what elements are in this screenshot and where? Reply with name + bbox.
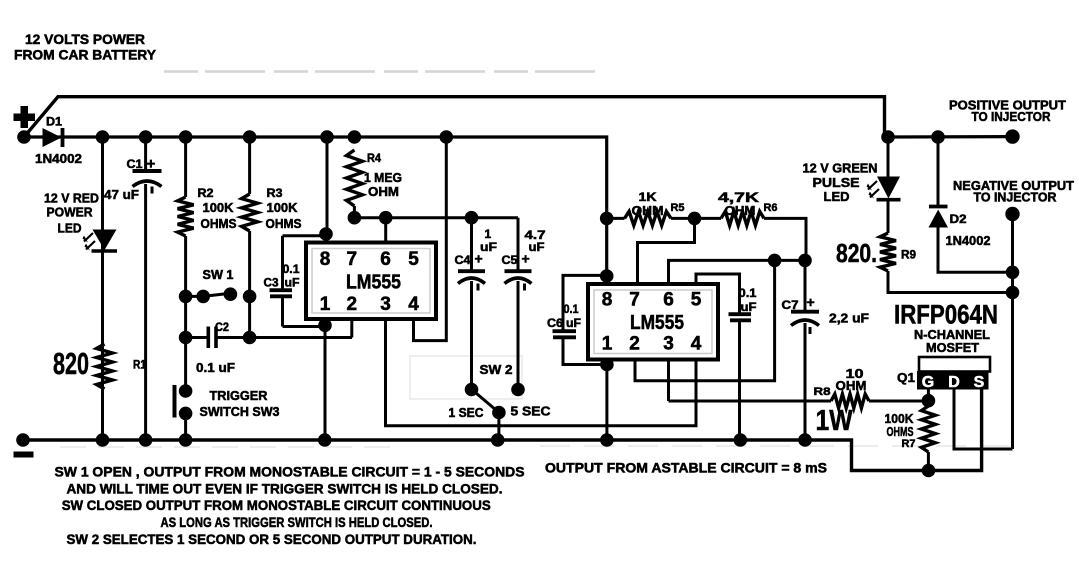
svg-text:4: 4 (691, 334, 702, 355)
svg-text:uF: uF (529, 240, 545, 254)
svg-text:C1: C1 (127, 157, 143, 171)
svg-text:LED: LED (824, 189, 850, 204)
svg-text:5: 5 (691, 289, 702, 310)
svg-text:1 SEC: 1 SEC (449, 405, 485, 420)
svg-text:100K: 100K (203, 200, 235, 215)
svg-text:uF: uF (741, 300, 757, 314)
svg-text:AS LONG AS TRIGGER SWITCH IS H: AS LONG AS TRIGGER SWITCH IS HELD CLOSED… (161, 514, 433, 530)
svg-text:OHM: OHM (368, 184, 399, 199)
svg-text:OHM: OHM (632, 203, 664, 218)
svg-text:TO INJECTOR: TO INJECTOR (974, 190, 1058, 205)
svg-text:TO INJECTOR: TO INJECTOR (972, 109, 1052, 124)
svg-text:4: 4 (408, 294, 419, 315)
svg-text:0.1: 0.1 (283, 262, 300, 276)
svg-text:R4: R4 (367, 151, 381, 165)
svg-text:12 V GREEN: 12 V GREEN (803, 161, 878, 176)
svg-text:7: 7 (347, 249, 358, 270)
svg-text:MOSFET: MOSFET (926, 340, 979, 355)
svg-text:TRIGGER: TRIGGER (210, 388, 269, 403)
svg-text:+: + (807, 294, 815, 310)
svg-text:1 MEG: 1 MEG (364, 170, 402, 185)
svg-text:47 uF: 47 uF (104, 187, 139, 202)
svg-text:LM555: LM555 (630, 312, 684, 334)
svg-text:0.1 uF: 0.1 uF (196, 360, 235, 375)
svg-text:FROM CAR BATTERY: FROM CAR BATTERY (14, 47, 157, 63)
svg-text:820: 820 (53, 346, 89, 381)
svg-text:R7: R7 (902, 438, 916, 450)
svg-text:0.1: 0.1 (564, 302, 579, 316)
svg-text:820.: 820. (836, 238, 877, 268)
svg-text:12 V RED: 12 V RED (44, 191, 99, 206)
svg-text:Q1: Q1 (897, 370, 915, 385)
svg-text:6: 6 (380, 249, 391, 270)
svg-text:C5: C5 (502, 253, 518, 267)
svg-text:1: 1 (485, 227, 492, 241)
svg-text:OHM: OHM (836, 378, 867, 393)
svg-text:1N4002: 1N4002 (946, 233, 991, 248)
svg-text:C6: C6 (547, 316, 563, 330)
svg-text:OHMS: OHMS (266, 216, 302, 231)
svg-text:S: S (974, 374, 985, 391)
svg-text:D: D (948, 374, 960, 391)
svg-text:3: 3 (663, 334, 674, 355)
svg-text:LED: LED (58, 221, 82, 236)
svg-text:OUTPUT FROM ASTABLE CIRCUIT =: OUTPUT FROM ASTABLE CIRCUIT = 8 mS (545, 460, 827, 476)
svg-text:SW 2 SELECTES 1 SECOND OR 5 SE: SW 2 SELECTES 1 SECOND OR 5 SECOND OUTPU… (67, 531, 477, 547)
svg-text:uF: uF (480, 240, 497, 254)
svg-text:R3: R3 (267, 186, 283, 200)
svg-text:AND WILL TIME OUT EVEN IF TRIG: AND WILL TIME OUT EVEN IF TRIGGER SWITCH… (67, 480, 503, 496)
svg-text:1: 1 (602, 334, 613, 355)
svg-text:8: 8 (602, 289, 613, 310)
svg-text:1K: 1K (639, 190, 657, 204)
svg-text:SW CLOSED OUTPUT FROM MONOSTAB: SW CLOSED OUTPUT FROM MONOSTABLE CIRCUIT… (62, 497, 491, 513)
svg-text:C7: C7 (782, 298, 799, 312)
svg-text:100K: 100K (267, 200, 299, 215)
svg-text:OHMS: OHMS (887, 424, 914, 439)
svg-text:uF: uF (285, 276, 300, 290)
svg-text:+: + (147, 156, 156, 173)
svg-text:1: 1 (320, 294, 331, 315)
svg-text:8: 8 (320, 249, 331, 270)
svg-text:2: 2 (347, 294, 358, 315)
svg-text:R6: R6 (764, 202, 778, 214)
svg-text:D1: D1 (46, 115, 62, 129)
svg-text:R5: R5 (671, 202, 685, 214)
svg-text:3: 3 (380, 294, 391, 315)
svg-text:POWER: POWER (47, 205, 94, 220)
svg-text:SW 1 OPEN , OUTPUT FROM MONOST: SW 1 OPEN , OUTPUT FROM MONOSTABLE CIRCU… (55, 464, 525, 480)
svg-text:7: 7 (629, 289, 640, 310)
svg-text:2,2 uF: 2,2 uF (829, 311, 869, 326)
svg-text:SW 2: SW 2 (480, 362, 513, 377)
svg-text:1W: 1W (816, 405, 854, 437)
svg-text:0.1: 0.1 (739, 286, 757, 300)
svg-text:C3: C3 (264, 276, 279, 290)
svg-text:C4: C4 (455, 253, 471, 267)
svg-text:R9: R9 (901, 248, 916, 262)
svg-text:OHMS: OHMS (201, 216, 237, 231)
svg-text:SWITCH SW3: SWITCH SW3 (200, 404, 280, 419)
svg-text:D2: D2 (950, 212, 967, 226)
svg-text:6: 6 (663, 289, 674, 310)
svg-text:uF: uF (566, 316, 581, 330)
svg-text:IRFP064N: IRFP064N (894, 300, 998, 330)
svg-text:LM555: LM555 (346, 272, 401, 294)
svg-text:1N4002: 1N4002 (35, 151, 82, 166)
svg-text:R2: R2 (198, 186, 214, 200)
svg-text:5 SEC: 5 SEC (511, 404, 552, 419)
svg-text:OHM: OHM (725, 203, 756, 218)
svg-text:G: G (922, 374, 934, 391)
svg-text:C2: C2 (215, 320, 229, 334)
svg-text:R8: R8 (814, 386, 831, 398)
svg-text:PULSE: PULSE (813, 175, 860, 190)
svg-text:5: 5 (408, 249, 419, 270)
svg-text:12 VOLTS POWER: 12 VOLTS POWER (25, 31, 145, 47)
svg-text:SW 1: SW 1 (203, 267, 234, 282)
svg-text:2: 2 (629, 334, 640, 355)
